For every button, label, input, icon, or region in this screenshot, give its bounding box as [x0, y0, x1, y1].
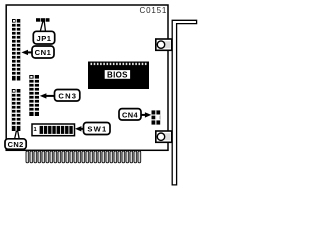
- JP1 label: [33, 31, 54, 44]
- svg-text:CN3: CN3: [58, 91, 77, 100]
- jumper JP1 block: [36, 18, 50, 22]
- CN4 label arrow: [141, 112, 152, 117]
- JP1 label pointer: [40, 22, 45, 32]
- svg-text:SW1: SW1: [87, 125, 107, 134]
- CN1 label: [32, 46, 54, 58]
- DIP switch SW1: [32, 124, 75, 136]
- BIOS chip: [88, 62, 149, 90]
- pin header CN1: [12, 19, 20, 81]
- CN2 label: [5, 139, 26, 149]
- CN3 label: [55, 90, 80, 102]
- CN4 label: [119, 109, 141, 120]
- svg-text:CN4: CN4: [122, 110, 138, 119]
- mounting bracket: [172, 20, 196, 185]
- card outline: [6, 5, 168, 150]
- svg-text:CN1: CN1: [35, 48, 52, 57]
- pin header CN2: [12, 89, 21, 131]
- SW1 label arrow: [75, 126, 84, 131]
- svg-text:CN2: CN2: [8, 140, 24, 149]
- svg-text:C0151: C0151: [140, 6, 168, 15]
- CN1 label arrow: [21, 50, 33, 55]
- CN2 label pointer: [15, 131, 20, 139]
- edge connector fingers: [26, 151, 141, 163]
- pin header CN4: [152, 110, 161, 124]
- CN3 label arrow: [40, 93, 55, 98]
- BIOS label: [104, 70, 130, 80]
- svg-text:JP1: JP1: [36, 34, 51, 43]
- bracket connector J1 (upper, round): [156, 39, 172, 50]
- pin header CN3: [29, 75, 39, 116]
- bracket connector J2 (lower, round): [156, 131, 172, 142]
- svg-text:BIOS: BIOS: [107, 70, 128, 79]
- SW1 label: [84, 123, 111, 135]
